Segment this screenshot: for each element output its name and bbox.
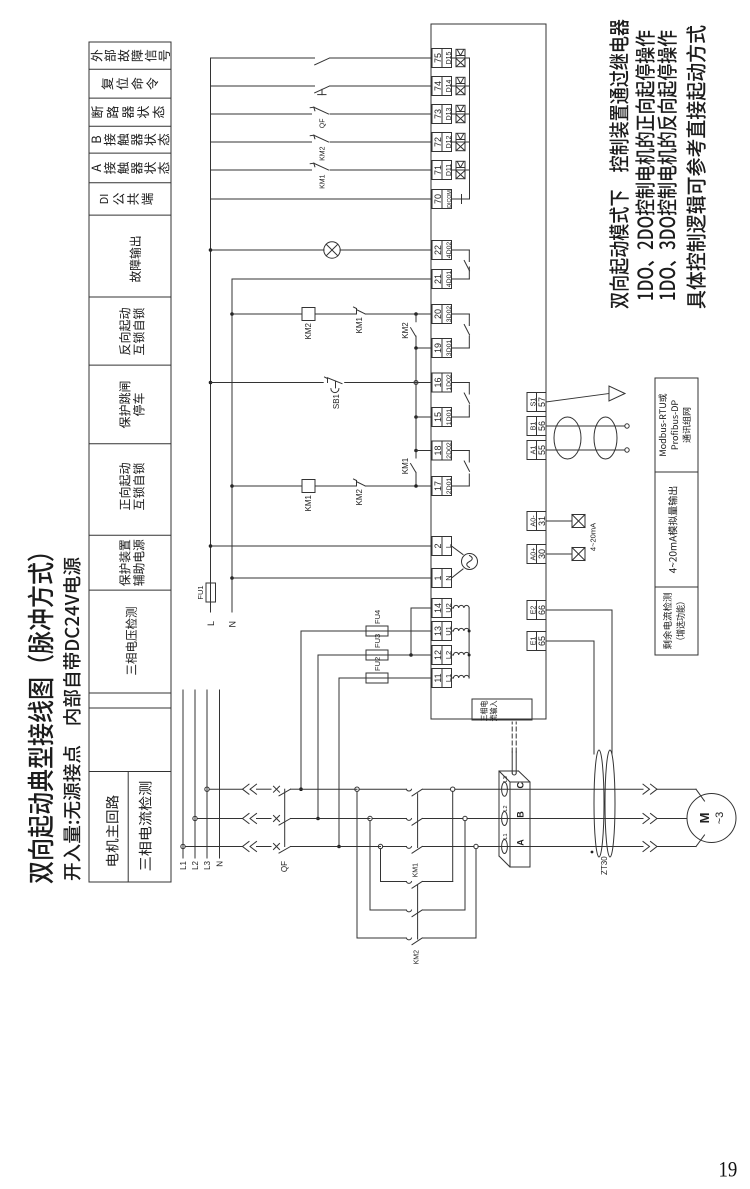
supply line N (219, 690, 221, 858)
DI common bus wire (469, 58, 471, 199)
svg-text:N: N (216, 861, 225, 867)
terminal 18/2D02 (432, 441, 453, 460)
terminal 2/L (432, 537, 453, 556)
DICOM tick (452, 195, 470, 204)
svg-text:QF: QF (280, 861, 289, 872)
coil KM1 (302, 480, 315, 493)
table label 复位命令 (101, 77, 158, 89)
breaker QF linkage (284, 789, 286, 846)
title 双向起动典型接线图（脉冲方式） (27, 555, 53, 884)
branch wire a2 (423, 849, 476, 938)
label N (216, 861, 225, 867)
wire T12 b (388, 654, 432, 656)
junction (230, 576, 234, 580)
label KM1 (320, 174, 327, 189)
wire T11 b (388, 677, 432, 679)
junction (414, 449, 418, 453)
contact KM1 NC on T20 (315, 307, 365, 314)
svg-text:19: 19 (433, 343, 443, 353)
svg-text:FU3: FU3 (373, 634, 382, 648)
label L3 (203, 860, 212, 869)
motor M (687, 794, 736, 843)
contact KM2 NC on T17 (315, 479, 365, 486)
terminal 15/1D01 (432, 408, 453, 427)
relay contact 806.5-772 (452, 383, 470, 418)
note line1 双向起动模式下 控制装置通过继电器 (609, 19, 629, 308)
subtitle 开入量:无源接点 内部自带DC24V电源 (63, 557, 81, 880)
table label 保护装置辅助电源 (119, 540, 145, 586)
CT secondary dashed (512, 722, 516, 752)
CT secondary hook (512, 773, 516, 775)
option box 通讯组网 (655, 378, 698, 472)
svg-text:14: 14 (433, 603, 443, 613)
terminal 19/3D01 (432, 339, 453, 358)
terminal S1/57 (527, 393, 547, 412)
label KM1 (401, 457, 410, 474)
wire T17 c (365, 485, 432, 487)
svg-text:17: 17 (433, 481, 443, 491)
terminal 16/1D02 (432, 373, 453, 392)
tap node circle L3 (205, 787, 209, 791)
label L (206, 621, 216, 626)
svg-text:A: A (516, 839, 526, 846)
wire DI 71 lower (330, 169, 432, 171)
wire DI 71 upper (211, 169, 312, 171)
CT terminal labels (516, 781, 526, 845)
supply line L2 (194, 690, 196, 858)
wire T56 (546, 425, 625, 427)
svg-text:FU1: FU1 (196, 585, 205, 599)
svg-text:QF: QF (320, 119, 327, 129)
shield wire 57 (546, 394, 609, 403)
label N (228, 621, 238, 628)
svg-text:KM2: KM2 (414, 950, 421, 965)
junction (337, 845, 341, 849)
terminal 14/U2 (432, 599, 453, 618)
svg-text:15: 15 (433, 412, 443, 422)
contact SB1 NC (325, 377, 343, 393)
phase wire L2 a (197, 818, 242, 820)
svg-text:N: N (228, 621, 238, 628)
breaker QF poles (274, 786, 301, 853)
label QF (320, 119, 327, 129)
contact on DI 75 (315, 58, 330, 65)
contactor KM1 main contacts (406, 789, 422, 877)
wire DI 73 upper (211, 113, 312, 115)
coil KM2 (302, 308, 315, 321)
svg-text:74: 74 (433, 81, 443, 91)
phase wire L3 b (300, 788, 357, 790)
svg-text:21: 21 (433, 274, 443, 284)
svg-text:M: M (697, 813, 712, 824)
tap node circle L1 (181, 844, 185, 848)
wire T15 (416, 416, 432, 418)
drawout chevrons upper (243, 784, 257, 851)
svg-text:B1: B1 (528, 422, 537, 431)
svg-text:KM1: KM1 (320, 174, 327, 189)
svg-text:72: 72 (433, 137, 443, 147)
wire T16 lower (345, 382, 432, 384)
svg-text:B: B (516, 811, 526, 818)
wire T13 b (388, 630, 432, 632)
relay contact 875-841 (452, 314, 470, 348)
terminal 75/D15 (432, 49, 453, 68)
svg-text:L1: L1 (179, 860, 188, 869)
terminal 20/3D02 (432, 305, 453, 324)
wire T11 a (339, 677, 366, 679)
svg-text:A0+: A0+ (528, 548, 537, 561)
phase wire L2 b (300, 818, 370, 820)
branch node L2 (368, 816, 372, 820)
phase wire L1 b (300, 846, 381, 848)
motor feed L2 (657, 818, 687, 820)
bus wire L(+) (210, 58, 212, 612)
note line4 具体控制逻辑可参考直接起动方式 (686, 26, 706, 309)
table label 保护跳闸停车 (119, 382, 145, 429)
svg-text:4~20mA: 4~20mA (589, 523, 598, 551)
contact KM2 NO selfhold (411, 313, 416, 348)
svg-text:L2: L2 (191, 860, 200, 869)
label KM1 (355, 316, 364, 333)
svg-text:L: L (206, 621, 216, 626)
terminal 74/D14 (432, 77, 453, 96)
branch wire a (357, 791, 406, 938)
terminal A0+/30 (527, 545, 547, 564)
wire T55 (546, 449, 625, 451)
svg-text:20: 20 (433, 309, 443, 319)
phase wire L1 e (478, 846, 643, 848)
table label A接触器状态 (92, 162, 170, 174)
branch node L3 (355, 787, 359, 791)
junction (409, 653, 413, 657)
PT input coils (452, 605, 470, 678)
svg-text:13: 13 (433, 626, 443, 636)
branch wire c2 (423, 791, 453, 881)
junction (209, 248, 213, 252)
option box 4~20mA模拟量输出 (655, 472, 698, 587)
terminal 22/4D02 (432, 241, 453, 260)
wire DI 72 lower (330, 141, 432, 143)
branch wire b2 (423, 821, 465, 910)
note line3 1DO、3DO控制电机的反向起停操作 (657, 31, 677, 300)
table label 外部故障信号 (91, 50, 170, 62)
wire T13 a (301, 630, 366, 632)
terminal 73/D13 (432, 105, 453, 124)
svg-text:KM1: KM1 (304, 494, 313, 511)
wire T20 a (232, 313, 302, 315)
contact on DI 72 (310, 135, 328, 142)
contact on DI 71 (310, 163, 328, 170)
PT coil bus (468, 608, 471, 678)
fuse FU1 (206, 583, 216, 602)
shield symbol (609, 386, 625, 401)
svg-text:S1: S1 (528, 398, 537, 407)
table label 三相电压检测 (125, 607, 137, 674)
wire DI 75 lower (330, 57, 432, 59)
table label 三相电流检测 (139, 782, 152, 871)
svg-text:ZT30: ZT30 (600, 856, 609, 875)
junction (209, 544, 213, 548)
svg-text:70: 70 (433, 194, 443, 204)
junction (299, 787, 303, 791)
ZT30 polarity dot (591, 851, 594, 854)
label FU3 (373, 634, 382, 648)
wire DI 73 lower (330, 113, 432, 115)
svg-text:L3: L3 (203, 860, 212, 869)
bus wire N (231, 279, 233, 612)
svg-text:71: 71 (433, 165, 443, 175)
CT secondary wires (512, 752, 516, 773)
ZCT ZT30 ring (594, 750, 615, 857)
svg-text:73: 73 (433, 109, 443, 119)
motor feed L1 (657, 835, 705, 847)
junction (414, 484, 418, 488)
label 4~20mA (589, 523, 598, 551)
CT phase labels (503, 776, 509, 839)
phase wire L2 e (467, 818, 643, 820)
svg-text:KM2: KM2 (355, 488, 364, 505)
wire DI 74 upper (211, 85, 315, 87)
supply line L1 (182, 690, 184, 858)
table label 断路器状态 (91, 106, 164, 118)
svg-text:12: 12 (433, 650, 443, 660)
aux power source symbol (452, 546, 478, 578)
rejoin node L2 (463, 816, 467, 820)
junction (414, 346, 418, 350)
wire T12 a (318, 654, 366, 656)
wire T12 tap (317, 655, 319, 819)
svg-text:A0-: A0- (528, 515, 537, 527)
wire T1 (232, 577, 432, 579)
AO symbol 30 (572, 548, 585, 561)
contactor KM2 main contacts (406, 882, 422, 965)
CT primary ellipses (502, 782, 508, 853)
svg-text:18: 18 (433, 445, 443, 455)
phase wire L1 c (383, 846, 407, 848)
svg-text:SB1: SB1 (332, 393, 341, 409)
label ZT30 (600, 856, 609, 875)
label KM1 (304, 494, 313, 511)
terminal 12/L2 (432, 646, 453, 665)
node bus wire (415, 349, 417, 451)
wire T13 tap (300, 631, 302, 789)
terminal B1/56 (527, 417, 547, 436)
label table frame (89, 42, 171, 882)
label KM2 (355, 488, 364, 505)
label SB1 (332, 393, 341, 409)
label KM2 (401, 322, 410, 339)
branch node L1 (378, 844, 382, 848)
svg-text:22: 22 (433, 245, 443, 255)
contact KM1 NO selfhold (411, 451, 416, 487)
AO symbol 31 (572, 515, 585, 528)
twisted pair ellipse 1 (554, 417, 581, 459)
option box 剩余电流检测 (655, 587, 698, 655)
wire T21 (232, 278, 432, 280)
table label 电机主回路 (106, 795, 119, 865)
phase wire L2 c (372, 818, 406, 820)
wire T16 upper (211, 382, 324, 384)
current transformer block (499, 771, 530, 867)
label FU2 (373, 657, 382, 671)
terminal 72/D12 (432, 133, 453, 152)
junction (414, 415, 418, 419)
wire T31 (546, 520, 572, 522)
phase wire L2 d (423, 818, 463, 820)
svg-text:KM1: KM1 (355, 316, 364, 333)
label L1 (179, 860, 188, 869)
wire T18 (416, 450, 432, 452)
terminal 21/4D01 (432, 270, 453, 289)
table label B接触器状态 (92, 134, 170, 146)
svg-text:~3: ~3 (714, 812, 726, 825)
svg-text:KM2: KM2 (320, 146, 327, 161)
svg-text:KM1: KM1 (401, 457, 410, 474)
relay contact 738.5-703 (452, 451, 470, 487)
svg-text:19: 19 (719, 1157, 738, 1182)
label QF (280, 861, 289, 872)
label FU4 (373, 610, 382, 624)
phase wire L3 e (455, 788, 643, 790)
CT input box 三相电流输入 (472, 699, 532, 721)
junction (209, 381, 213, 385)
terminal 17/2D01 (432, 477, 453, 496)
svg-text:2: 2 (433, 543, 443, 548)
svg-text:FU2: FU2 (373, 657, 382, 671)
table label 故障输出 (129, 237, 141, 282)
drawout chevrons lower (643, 784, 657, 851)
terminal 70/DICOM (432, 190, 453, 209)
svg-text:75: 75 (433, 53, 443, 63)
phase wires mid (257, 789, 272, 846)
svg-text:11: 11 (433, 673, 443, 682)
wire DI 72 upper (211, 141, 312, 143)
lamp fault indicator (324, 242, 340, 258)
junction (316, 817, 320, 821)
fuse FU4 (366, 626, 388, 636)
terminal 71/D11 (432, 161, 453, 180)
wire DI 70 (211, 198, 433, 200)
protection device U1 outline (431, 24, 546, 719)
terminal 1/N (432, 569, 453, 588)
svg-text:KM1: KM1 (413, 863, 420, 878)
branch wire c (381, 849, 407, 882)
wire T17 a (232, 485, 302, 487)
svg-text:KM2: KM2 (304, 322, 313, 339)
wire T14 (411, 607, 432, 609)
svg-text:E1: E1 (528, 637, 537, 646)
wire T22 lower (340, 249, 432, 251)
wire T30 (546, 553, 572, 555)
junction (230, 484, 234, 488)
wire T20 c (365, 313, 432, 315)
label L2 (191, 860, 200, 869)
phase wire L3 a (209, 788, 242, 790)
motor feed L3 (657, 789, 705, 801)
terminal A0-/31 (527, 512, 547, 531)
label FU1 (196, 585, 205, 599)
wire DI 74 lower (330, 85, 432, 87)
table label 正向起动互锁自锁 (119, 463, 145, 510)
svg-text:16: 16 (433, 377, 443, 387)
svg-text:A1: A1 (528, 446, 537, 455)
wire T22 upper (211, 249, 325, 251)
svg-text:FU4: FU4 (373, 610, 382, 624)
svg-text:L1: L1 (503, 833, 509, 839)
supply line L3 (206, 690, 208, 858)
wire DI 75 upper (211, 57, 315, 59)
table label DI公共端 (100, 193, 153, 205)
terminal E2/66 (527, 601, 547, 620)
svg-text:1: 1 (433, 575, 443, 580)
svg-text:E2: E2 (528, 606, 537, 615)
DI input optocouplers (452, 49, 470, 178)
rejoin node L1 (474, 844, 478, 848)
phase wire L1 d (423, 846, 474, 848)
table label 反向起动互锁自锁 (119, 308, 145, 355)
phase wire L3 c (359, 788, 406, 790)
fuse FU2 (366, 673, 388, 683)
svg-text:C: C (516, 781, 526, 788)
wire E2-ZCT (546, 610, 612, 754)
phase wire L1 a (185, 846, 242, 848)
terminal A1/55 (527, 441, 547, 460)
tap node circle L2 (193, 816, 197, 820)
wire T11 tap (338, 678, 340, 847)
svg-text:L3: L3 (503, 776, 509, 782)
wire T19 (416, 347, 432, 349)
contact on DI 73 (310, 107, 328, 114)
label KM2 (304, 322, 313, 339)
svg-text:KM2: KM2 (401, 322, 410, 339)
rejoin node L3 (451, 787, 455, 791)
wire T2 (211, 545, 433, 547)
phase wire L3 d (423, 788, 451, 790)
contact on DI 74 (315, 86, 330, 95)
terminal 13/U1 (432, 622, 453, 641)
junction (230, 312, 234, 316)
wire T14-T12 jumper (410, 608, 412, 655)
terminal E1/65 (527, 632, 547, 651)
wire E1-ZCT (546, 641, 594, 754)
branch wire b (370, 821, 406, 910)
label KM2 (320, 146, 327, 161)
note line2 1DO、2DO控制电机的正向起停操作 (635, 31, 655, 300)
junction (414, 312, 418, 316)
fuse FU3 (366, 650, 388, 660)
svg-text:L2: L2 (503, 805, 509, 811)
node circle (414, 381, 418, 385)
comm end nodes (625, 424, 629, 452)
twisted pair ellipse 2 (594, 417, 617, 459)
terminal 11/L1 (432, 669, 453, 688)
relay contact 939-910 (452, 250, 470, 279)
